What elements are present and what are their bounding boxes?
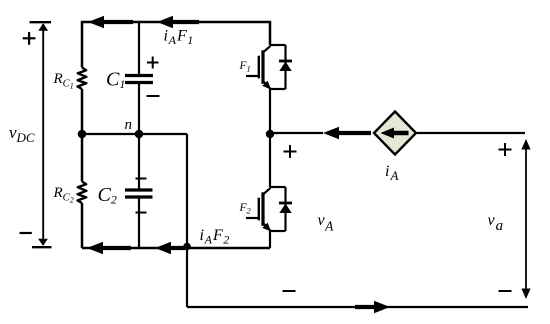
minus C1 xyxy=(147,95,160,97)
wire current arrow A1 on top rail xyxy=(88,16,133,28)
capacitor C1 xyxy=(125,76,153,83)
plus va xyxy=(499,143,512,156)
wire C1 to node xyxy=(138,84,140,134)
current arrow iA on phase wire xyxy=(323,127,371,139)
wire bridge mid xyxy=(269,89,271,187)
wire bottom out xyxy=(187,306,528,308)
wire node row xyxy=(82,133,187,135)
dependent current source iA xyxy=(374,112,416,155)
wire current arrow A2 on bottom rail xyxy=(87,242,131,254)
plus vDC xyxy=(23,32,36,45)
minus vDC xyxy=(20,232,32,234)
tick C2 bottom xyxy=(136,212,147,214)
wire left rail middle segment xyxy=(81,89,84,182)
wire current arrow iAF1 on top rail xyxy=(157,16,199,28)
phase junction dot xyxy=(266,130,274,138)
junction dot xyxy=(183,243,191,251)
svg-text:n: n xyxy=(125,117,133,133)
resistor RC2 xyxy=(78,182,87,204)
plus vA xyxy=(284,145,297,158)
wire C2 to bottom rail xyxy=(138,198,140,248)
wire phase out right xyxy=(416,132,525,134)
wire bottom rail xyxy=(82,247,270,250)
voltage arrow vDC xyxy=(30,22,52,247)
tick C2 top xyxy=(136,178,147,180)
wire current arrow iAF2 on bottom rail xyxy=(155,242,185,254)
wire node to bottom xyxy=(186,134,188,307)
wire C2 branch xyxy=(138,134,140,189)
wire F2 emitter down xyxy=(269,231,271,248)
minus vA xyxy=(283,290,296,292)
voltage arrow va xyxy=(521,139,530,299)
wire C1 branch xyxy=(138,22,140,74)
node dot left xyxy=(78,130,87,139)
capacitor C2 xyxy=(125,190,153,197)
transistor F2 xyxy=(246,187,292,232)
resistor RC1 xyxy=(78,68,87,90)
node n dot xyxy=(135,130,144,139)
wire phase out left xyxy=(270,132,323,134)
transistor F1 xyxy=(246,45,292,90)
wire top rail and left rail upper segment xyxy=(82,22,270,68)
plus C1 xyxy=(147,57,159,69)
current arrow out xyxy=(355,301,390,313)
wire left rail lower segment xyxy=(81,203,84,248)
minus va xyxy=(499,290,512,292)
